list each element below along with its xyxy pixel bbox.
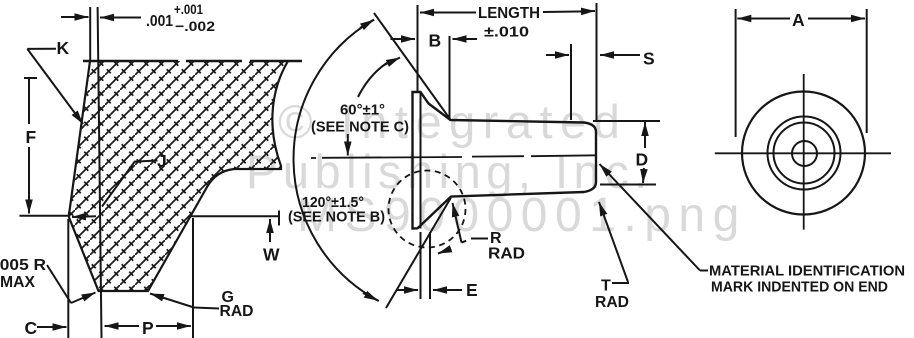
R RAD arrow to junction xyxy=(453,203,462,243)
svg-text:+.001: +.001 xyxy=(174,1,203,17)
P dimension xyxy=(105,325,140,327)
crosshair horizontal xyxy=(715,152,891,154)
knee extension line left (F) xyxy=(20,215,71,217)
svg-text:A: A xyxy=(792,10,805,30)
svg-text:−.002: −.002 xyxy=(175,18,215,34)
svg-text:MARK INDENTED ON END: MARK INDENTED ON END xyxy=(711,279,888,296)
outer circle xyxy=(742,92,865,215)
svg-text:±.010: ±.010 xyxy=(484,24,529,41)
knee arrow xyxy=(72,215,96,218)
crosshair vertical xyxy=(803,74,805,230)
centerline xyxy=(311,155,597,158)
A dimension xyxy=(737,18,770,20)
A extension lines xyxy=(736,9,867,137)
E dimension xyxy=(421,232,431,299)
T RAD leader xyxy=(599,202,628,282)
svg-text:.005 R: .005 R xyxy=(0,257,46,274)
see note C arrow to centerline xyxy=(347,134,349,156)
svg-text:T: T xyxy=(601,278,611,295)
svg-text:RAD: RAD xyxy=(220,303,254,320)
D dimension xyxy=(593,121,660,185)
R RAD dashed circle xyxy=(389,171,466,248)
F dimension line xyxy=(24,78,37,211)
right figure text labels xyxy=(709,10,905,296)
svg-text:D: D xyxy=(636,150,649,170)
svg-text:RAD: RAD xyxy=(595,294,629,311)
knee extension line down (C) xyxy=(67,219,69,338)
S dimension xyxy=(570,44,572,120)
ring outer xyxy=(768,117,841,190)
svg-text:.001: .001 xyxy=(146,13,173,30)
.005 R MAX leader xyxy=(47,265,71,303)
J leader xyxy=(102,161,158,207)
60 deg leader xyxy=(358,61,390,97)
left edge extension line xyxy=(89,7,91,61)
svg-text:F: F xyxy=(26,127,37,147)
svg-text:C: C xyxy=(25,318,38,338)
B dimension xyxy=(391,38,416,40)
svg-text:(SEE NOTE C): (SEE NOTE C) xyxy=(311,119,409,136)
svg-text:P: P xyxy=(142,318,154,338)
C dimension xyxy=(37,326,67,328)
svg-text:MAX: MAX xyxy=(0,274,35,291)
LENGTH dimension xyxy=(420,12,434,14)
svg-text:S: S xyxy=(643,49,655,69)
svg-text:(SEE NOTE B): (SEE NOTE B) xyxy=(288,209,385,226)
head face inner line xyxy=(420,92,422,229)
cone extension line top xyxy=(374,13,451,120)
G RAD leader xyxy=(194,308,219,309)
hole wall line xyxy=(98,7,102,338)
svg-text:MATERIAL IDENTIFICATION: MATERIAL IDENTIFICATION xyxy=(709,263,905,280)
svg-text:60°±1°: 60°±1° xyxy=(340,102,385,119)
K leader xyxy=(27,48,56,50)
small circle xyxy=(792,141,817,166)
R RAD small dashed arrow xyxy=(438,250,449,254)
svg-text:R: R xyxy=(490,230,502,247)
svg-text:J: J xyxy=(157,151,167,171)
P right extension line xyxy=(192,218,194,338)
dim .001 arrows xyxy=(61,16,89,18)
W extension line xyxy=(191,211,279,226)
svg-text:K: K xyxy=(57,38,70,58)
svg-text:W: W xyxy=(263,245,280,265)
120 deg arc xyxy=(294,20,379,302)
material identification leader xyxy=(700,270,708,272)
LENGTH extension lines xyxy=(417,5,419,91)
W dimension arrow xyxy=(269,219,271,242)
cone extension line bottom xyxy=(386,198,451,309)
svg-text:RAD: RAD xyxy=(488,246,525,263)
svg-text:E: E xyxy=(466,280,478,300)
top surface line (dashed right) xyxy=(83,60,302,62)
middle figure text labels xyxy=(288,5,655,311)
svg-text:LENGTH: LENGTH xyxy=(478,5,540,22)
hatched section J xyxy=(68,61,288,291)
left figure text labels xyxy=(0,1,280,338)
svg-text:B: B xyxy=(429,31,442,51)
ring inner xyxy=(774,123,835,184)
fastener outline xyxy=(413,92,597,229)
